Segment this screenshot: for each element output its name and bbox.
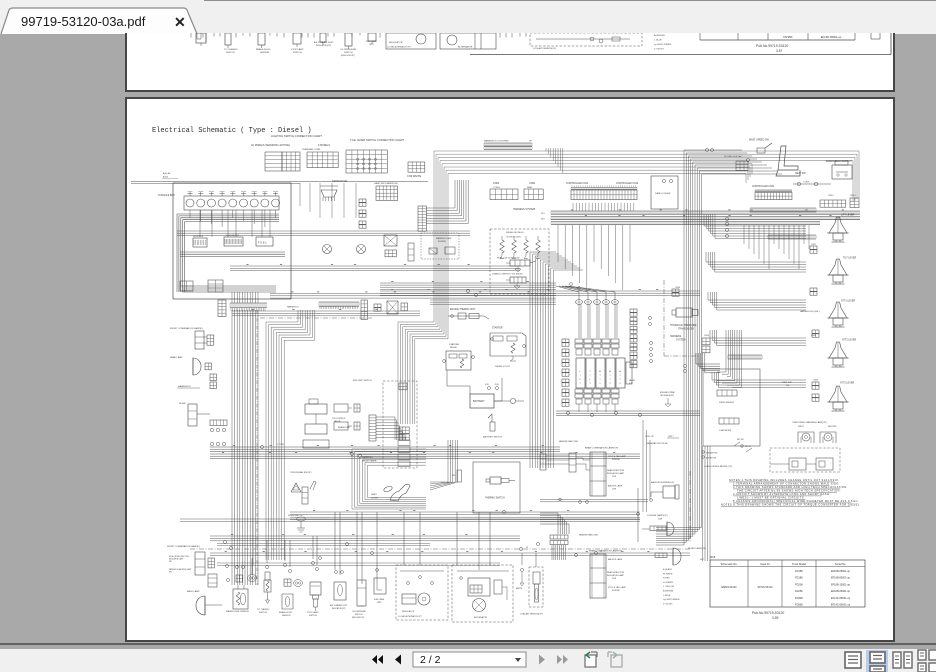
notes text block [721,478,861,507]
center bundle top corners [530,252,583,270]
svg-text:RELAY: RELAY [450,346,458,349]
svg-text:3.THIS DRAWING SHOWS STANDARD: 3.THIS DRAWING SHOWS STANDARD AND HIGH T… [733,485,848,489]
connector below tilt lever [810,288,817,295]
svg-text:GLOW PLUGS: GLOW PLUGS [506,237,521,239]
svg-text:BACKUP LAMP: BACKUP LAMP [608,558,623,561]
layout icon facing pages [893,652,912,668]
air cleaner dust indicator bottom [330,571,348,610]
console gauge drop wires [188,192,279,228]
pick up label [645,436,679,445]
small connector pair below harness label [210,374,216,389]
page1 labels row [224,40,377,57]
svg-text:SWITCH: SWITCH [355,614,363,616]
thermo switch enclosure [473,462,520,513]
svg-text:I: I [580,375,581,377]
right harness pin strip A [750,208,816,212]
page1 alternator box [440,33,496,49]
svg-text:ATT2 LEVER: ATT2 LEVER [842,339,856,342]
chart table 2 (terminal) [302,148,338,168]
battery switch symbol [483,414,503,439]
svg-text:WATER LEVEL SENSOR: WATER LEVEL SENSOR [226,610,249,613]
svg-text:EF18B-15001-up: EF18B-15001-up [831,583,851,586]
toolbar next-page button (disabled) [539,655,545,665]
svg-text:Lg:LIGHT GREEN: Lg:LIGHT GREEN [654,44,671,46]
svg-text:G :GREEN: G :GREEN [663,582,673,584]
layout icon continuous facing [918,650,936,672]
page 1 (partial, bottom of sheet 3-57) [125,33,895,92]
harness system bus strip DP1 [541,211,860,215]
harness D label left [177,385,200,388]
center nested corner mesh (to valve drivers) [398,308,448,424]
svg-text:T-bar LEVER SWITCH CONNECTION: T-bar LEVER SWITCH CONNECTION CHART [350,138,404,142]
long wire above console to charts [131,182,428,184]
console lower connector A [180,281,193,291]
svg-text:CN63: CN63 [529,182,536,185]
console internal wiring mesh [177,210,285,292]
right harness pin strip B [768,235,816,239]
svg-text:HARNESS D: HARNESS D [287,306,299,309]
svg-text:BRAKE FLUID: BRAKE FLUID [256,48,271,51]
regulator closed alternator dashed box [396,565,448,620]
lamp & dimmer switch connector grid [374,182,399,200]
svg-text:UNIT: UNIT [369,44,374,46]
svg-text:CN17: CN17 [811,244,817,246]
bottom bus of mid section y411-417 [556,411,700,417]
svg-text:HARNESS: HARNESS [362,456,373,459]
rear lamp connector strips 1 [540,440,590,472]
svg-text:CN15: CN15 [704,335,710,337]
svg-text:TIMING CONTROL SOLENOID: TIMING CONTROL SOLENOID [492,274,523,276]
svg-text:HORN: HORN [179,403,186,405]
set switches [702,439,752,460]
emergency switch [826,160,852,179]
svg-text:LINES(---) MUST BE OPTIONAL CI: LINES(---) MUST BE OPTIONAL CIRCUITS. [737,496,805,500]
svg-text:SWITCH: SWITCH [226,52,235,54]
svg-text:REAR DIRECTION: REAR DIRECTION [607,571,625,574]
svg-text:LICENSE LAMP(OP): LICENSE LAMP(OP) [647,514,668,517]
svg-text:HARNESS REAR COMB: HARNESS REAR COMB [559,440,579,443]
connector CN19 [812,380,819,390]
svg-text:10W: 10W [612,489,616,491]
svg-text:GENERATOR PULSE: GENERATOR PULSE [646,442,668,445]
wires lamp switch to CN6 fan [426,180,468,224]
fuel gauge box [256,237,273,246]
svg-text:LOAD METER: LOAD METER [719,429,732,432]
svg-text:FD15K: FD15K [795,569,803,573]
connector CN17 [810,244,817,253]
page1 sheet frame line [470,33,891,55]
svg-text:INDICATOR LAMP: INDICATOR LAMP [607,574,624,577]
svg-text:T: T [589,383,591,385]
svg-text:EARTH: EARTH [516,587,523,590]
svg-text:4WD LIMIT SWITCH: 4WD LIMIT SWITCH [353,380,372,382]
dash-dot boundary center [664,280,700,356]
svg-text:CONSOLE BOX: CONSOLE BOX [158,195,175,197]
rear combination lamp stack 1 [590,452,606,496]
valve driver block LIFT [576,358,585,388]
svg-text:CN13: CN13 [828,195,834,197]
svg-text:AC MODELS (SEPARATE LIGHTING): AC MODELS (SEPARATE LIGHTING) [251,144,290,147]
hydraulic transducer connector CN16 [672,287,681,296]
engine thermo unit symbol [448,313,489,319]
svg-text:21W: 21W [612,578,616,580]
svg-text:1 CBLK: 1 CBLK [803,182,810,184]
svg-text:EF18B-65001-up: EF18B-65001-up [831,590,851,593]
svg-text:VALVE: VALVE [334,420,341,423]
svg-text:CN14: CN14 [850,195,856,197]
stop lamp switch bottom [307,562,321,618]
console box outline [173,183,291,299]
svg-text:L :BLUE: L :BLUE [663,595,671,597]
svg-text:3-59: 3-59 [772,616,779,620]
page1 wire color legend tail [654,34,671,51]
svg-text:A: A [609,370,611,373]
page 2 (sheet 3-59 diesel schematic) [125,97,895,642]
toolbar forward-view icon (disabled) [608,652,622,667]
valve left connector column [562,339,569,406]
svg-text:SEAT: SEAT [527,186,533,189]
nested corners bottom-left of rear lamp 2 [540,513,569,534]
vertical wires x642-652 to rear area [643,420,650,512]
svg-text:OIL PRESSURE: OIL PRESSURE [340,49,357,51]
svg-text:STOP & TAIL LAMP: STOP & TAIL LAMP [608,586,626,589]
svg-text:INDICATOR(OP): INDICATOR(OP) [316,44,331,47]
svg-text:21W: 21W [612,476,616,478]
svg-text:V :VIOLET: V :VIOLET [663,603,673,605]
inching solenoid pair [334,404,360,430]
connector CN13 [820,195,846,207]
svg-text:IGNITION SW: IGNITION SW [332,180,348,183]
svg-text:REGULATOR: REGULATOR [389,41,403,44]
warning lamp relay dashed box [770,448,840,472]
svg-text:2.TERMINAL ARRANGEMENT OF CONN: 2.TERMINAL ARRANGEMENT OF CONNECTOR SHOW… [733,482,840,486]
harness D system pin strip [484,140,533,150]
page1 component row (cut off) [196,33,376,49]
svg-text:EF16B-85001-up: EF16B-85001-up [831,577,851,580]
connector CN63 [524,182,543,200]
brake fluid sensor bottom [279,564,302,618]
bundle feed wires from console [232,292,258,303]
svg-text:ATT1 LEVER: ATT1 LEVER [841,300,855,303]
warning lamp buzzer dashed box [421,233,459,259]
svg-text:ENGINE STRAP: ENGINE STRAP [660,391,676,394]
svg-text:REAR COMBINATION LAMP(OP): REAR COMBINATION LAMP(OP) [585,447,618,450]
svg-text:Br:BROWN: Br:BROWN [663,591,674,593]
center bus junctions [467,283,581,297]
license lamp op [642,514,674,536]
svg-text:L :BLUE: L :BLUE [654,40,662,42]
junction circles above back lamp [223,540,232,581]
svg-text:DP: DP [529,141,533,143]
svg-text:ALTERNATOR: ALTERNATOR [458,46,473,49]
svg-text:F U E L: F U E L [258,240,267,244]
console meter panel row [184,192,280,210]
svg-text:BATTERY: BATTERY [473,399,485,403]
bus junction circles lower-middle [319,511,603,560]
svg-text:TILT LEVER: TILT LEVER [843,257,856,260]
glow plugs dashed box (diesel models) [490,229,549,294]
right side vertical bundle [656,150,702,545]
svg-text:HARNESS REAR COMB: HARNESS REAR COMB [579,534,599,537]
svg-text:Serial No.: Serial No. [835,562,847,566]
connector CN20 [812,394,819,401]
page1 table bottom row [700,32,855,41]
svg-text:Truck Model: Truck Model [792,562,807,566]
valve driver block ATT1 [596,358,605,388]
valve driver lower connectors [575,389,619,412]
svg-text:T: T [609,379,611,381]
svg-text:SYSTEM: SYSTEM [676,340,686,342]
svg-text:EF13D-65001-up: EF13D-65001-up [821,35,842,39]
svg-text:Br:BROWN: Br:BROWN [654,34,665,37]
front combination lamp R symbol [195,331,214,349]
valve right connector column [630,309,637,368]
att3 lever joystick [828,386,849,411]
fuse capsule mid [452,470,462,482]
svg-text:BACKUP BUZZER(OP): BACKUP BUZZER(OP) [651,481,674,484]
browser tab [0,7,199,34]
starter relay box [443,351,475,370]
coolant sensor op [516,567,543,616]
svg-text:EF14C-65001-up: EF14C-65001-up [831,597,851,600]
page1 coolant sensor circuit dashed box [530,33,642,50]
left-center nested corner mesh (console to shift lever) [266,310,315,560]
svg-text:T: T [609,375,611,377]
page1 misc cut stubs [191,32,880,50]
toolbar back-view icon [585,652,597,667]
svg-text:8W: 8W [169,561,172,563]
att1 lever joystick [828,302,849,327]
toolbar last-page button (disabled) [557,655,568,664]
controller CN31 [752,186,792,200]
hatched block [387,301,398,314]
hydraulic pressure transducer symbol [672,308,698,317]
svg-text:FD35K: FD35K [783,35,792,39]
svg-text:CN62: CN62 [493,182,500,185]
harness system lower ticks [551,222,820,225]
bus row y500 to buzzer [540,498,648,503]
dash-dot boundary right of rear lamps [689,471,691,542]
svg-text:LP: LP [526,547,529,549]
svg-text:VALVE: VALVE [629,379,636,382]
svg-text:HEAD LAMP: HEAD LAMP [170,356,183,359]
svg-text:A: A [599,370,601,373]
top main wire bundle right run [546,148,859,202]
battery wiring [447,370,502,401]
svg-text:A7(D): A7(D) [163,176,168,179]
svg-text:BACK LAMP: BACK LAMP [187,590,200,593]
backup buzzer op [650,481,679,501]
svg-text:T/M CONTROL: T/M CONTROL [332,418,347,420]
rear lamp labels 2 [607,558,626,592]
svg-text:CN1?: CN1? [668,436,674,438]
svg-text:MAST SPEED SW: MAST SPEED SW [749,139,770,142]
page1 regulator box [386,33,436,49]
ignition switch [320,180,348,201]
svg-text:M1B: M1B [710,555,716,559]
right bundle top corners [684,150,782,174]
svg-text:HYDRAULIC PRESSURE: HYDRAULIC PRESSURE [670,324,697,327]
svg-text:CONTROLLER CN12: CONTROLLER CN12 [616,183,639,185]
left bottom horizontal buses into lamp area [217,544,430,546]
layout icon single page [845,652,861,668]
svg-text:SW: SW [786,385,789,387]
svg-text:FD25K: FD25K [795,589,803,593]
svg-text:BACKUP LAMP: BACKUP LAMP [608,485,623,488]
junction circle rows on left bus [210,428,225,445]
svg-text:AIR CLEANER DUST: AIR CLEANER DUST [314,41,334,44]
svg-text:DIESEL MODELS: DIESEL MODELS [506,232,524,234]
lift lever joystick [828,217,849,242]
vertical drop bundle above shift lever [430,440,458,490]
svg-text:T: T [619,375,621,377]
oil pressure switch bottom [352,580,367,619]
alternator dashed box [452,565,513,622]
main left vertical bundle [232,310,258,585]
svg-text:10W: 10W [658,519,662,521]
svg-text:CLOSED ALTERNATOR OPT: CLOSED ALTERNATOR OPT [398,615,423,618]
center vertical bundle (x530-556) [530,252,553,468]
svg-text:A(D)+AC: A(D)+AC [163,172,171,175]
tilt lever joystick [828,259,849,284]
rear combination lamp stack 2 [590,554,606,598]
svg-text:WORK LAMP(OP): WORK LAMP(OP) [688,547,706,550]
wire color legend [663,568,680,605]
svg-text:34??: 34?? [700,559,704,561]
back lamp symbol [196,596,222,615]
vertical wire x638 [637,488,640,542]
engine strap ground label [660,391,676,407]
hour meter box [193,236,207,247]
left vertical wires below meter box [703,446,711,561]
long horizontal bus rows lower-middle [180,512,690,565]
svg-text:B :BLACK: B :BLACK [663,568,673,571]
shift lever cluster [371,484,410,501]
svg-text:SEAT SW: SEAT SW [795,172,806,175]
svg-text:HORN SWITCH: HORN SWITCH [288,515,303,517]
svg-text:SWITCH: SWITCH [293,52,302,54]
tab bar [0,0,936,34]
svg-text:Electrical Schematic ( Type :: Electrical Schematic ( Type : Diesel ) [152,127,312,135]
svg-text:T-TRLR: T-TRLR [493,187,501,189]
speed sensor connector [717,390,737,404]
svg-text:CN16: CN16 [675,287,681,289]
svg-text:AIR CLEANER DUST: AIR CLEANER DUST [330,604,348,607]
top main wire bundle left drop [434,151,563,308]
svg-text:(ENG.GROUP): (ENG.GROUP) [352,617,365,619]
svg-text:REGULATOR: REGULATOR [402,610,415,613]
svg-text:DP1: DP1 [541,213,545,215]
svg-text:FD35K: FD35K [795,603,803,607]
right nested corner mesh to levers [704,214,806,388]
harness system bus strip DP2 [541,217,860,221]
tc thermo switch bottom [257,566,271,615]
svg-text:BATTERY SWITCH: BATTERY SWITCH [483,436,503,439]
meter relay [384,235,397,246]
wire emergency switch to CN31 [793,182,831,186]
wires ignition area drops [300,183,356,218]
svg-text:FUEL TANK: FUEL TANK [374,598,385,601]
svg-text:FD30K: FD30K [795,596,803,600]
svg-text:Pub.No.99719-53120: Pub.No.99719-53120 [752,611,784,615]
svg-text:HARNESS D & SYSTEM: HARNESS D & SYSTEM [484,140,509,143]
svg-text:SENSOR: SENSOR [282,615,291,617]
svg-text:INDICATOR(OP): INDICATOR(OP) [332,607,346,610]
svg-text:NOTES 6.THIS DRAWING SHOWS THE: NOTES 6.THIS DRAWING SHOWS THE CIRCUIT O… [721,503,861,507]
keypad connector [724,155,748,171]
svg-text:BUZZER: BUZZER [438,241,447,243]
connector CN6 white [407,162,425,178]
svg-text:LIFT LEVER: LIFT LEVER [841,214,855,217]
svg-text:E8819-53120: E8819-53120 [721,586,737,589]
svg-text:FIRST: FIRST [798,426,805,428]
svg-text:THE CIRCUIT AFTER No.99 SHOWS: THE CIRCUIT AFTER No.99 SHOWS HIGH TECH … [737,489,841,493]
chart table 3 (lever switch contacts) [346,150,387,173]
svg-text:SWITCH: SWITCH [309,615,317,617]
svg-text:21W/5W: 21W/5W [612,590,620,592]
svg-text:SHIFT: SHIFT [371,494,378,496]
svg-text:A: A [619,370,621,373]
connector CN62 [490,182,518,200]
valve driver side tab [626,362,632,384]
svg-text:L TYPE: L TYPE [277,444,284,446]
valve driver fan wires [556,286,617,338]
svg-text:K MODELS: K MODELS [318,145,330,147]
connector stacks above dashed box [399,383,409,440]
svg-text:HARNESS: HARNESS [670,335,682,338]
relay stack in dashed box [398,440,410,467]
load speed meter box [703,369,760,468]
svg-text:COOLANT SENSOR(OP): COOLANT SENSOR(OP) [533,47,556,50]
svg-text:STARTER: STARTER [449,343,459,346]
svg-text:R :RED: R :RED [663,578,670,580]
svg-text:SET SW: SET SW [737,439,744,441]
svg-text:REAR DIRECTION: REAR DIRECTION [607,469,625,472]
chart table 1 (lighting switch) [265,152,300,171]
svg-text:21W/5W: 21W/5W [612,459,620,461]
svg-text:HARNESS SOL(DSL): HARNESS SOL(DSL) [800,310,820,313]
svg-text:CONTROLLER CN31: CONTROLLER CN31 [752,186,775,188]
svg-text:SOL: SOL [629,383,633,385]
svg-text:CN18: CN18 [811,335,817,337]
mast speed switch [749,139,772,154]
svg-text:INDICATOR LAMP: INDICATOR LAMP [607,472,624,475]
svg-text:COALANT SENSOR(OP): COALANT SENSOR(OP) [520,613,543,616]
water level sensor [226,566,257,614]
controller strip drop verticals to harness bus [573,203,634,211]
terminal circles right bundle [706,149,750,238]
svg-text:FD20K: FD20K [795,582,803,586]
rear lamp 2 connector strips [550,534,599,561]
connector CN18 [811,330,819,337]
toolbar [0,643,936,645]
right-center nested corners below transducer [696,353,720,373]
right vertical drop field below harness bus [744,225,809,269]
valve driver block ATT3 [616,358,625,388]
svg-text:CLOSED ALTERNATOR OPT: CLOSED ALTERNATOR OPT [387,46,412,49]
svg-text:8W: 8W [169,572,172,574]
svg-text:LIGHTING SWITCH CONNECTION CHA: LIGHTING SWITCH CONNECTION CHART [271,134,322,138]
svg-text:TRANSDUCER: TRANSDUCER [678,328,694,331]
console lower connector B [208,280,223,292]
svg-text:T: T [579,383,581,385]
serial number table [710,560,865,607]
data logger box [651,176,678,209]
svg-text:L: L [579,371,581,373]
svg-text:HARNESS SYSTEM: HARNESS SYSTEM [513,208,535,211]
svg-text:TERMINAL CONN: TERMINAL CONN [302,148,320,151]
svg-text:3-57: 3-57 [776,49,783,53]
